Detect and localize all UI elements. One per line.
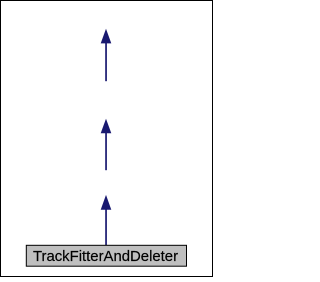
inheritance arrow 1 (top) [101,29,112,81]
node TrackFitterAndDeleter [26,245,186,266]
svg-text:TrackFitterAndDeleter: TrackFitterAndDeleter [33,249,178,265]
inheritance arrow 2 (middle) [101,119,112,171]
inheritance arrow 3 (bottom) [101,195,112,246]
image frame [1,1,213,277]
